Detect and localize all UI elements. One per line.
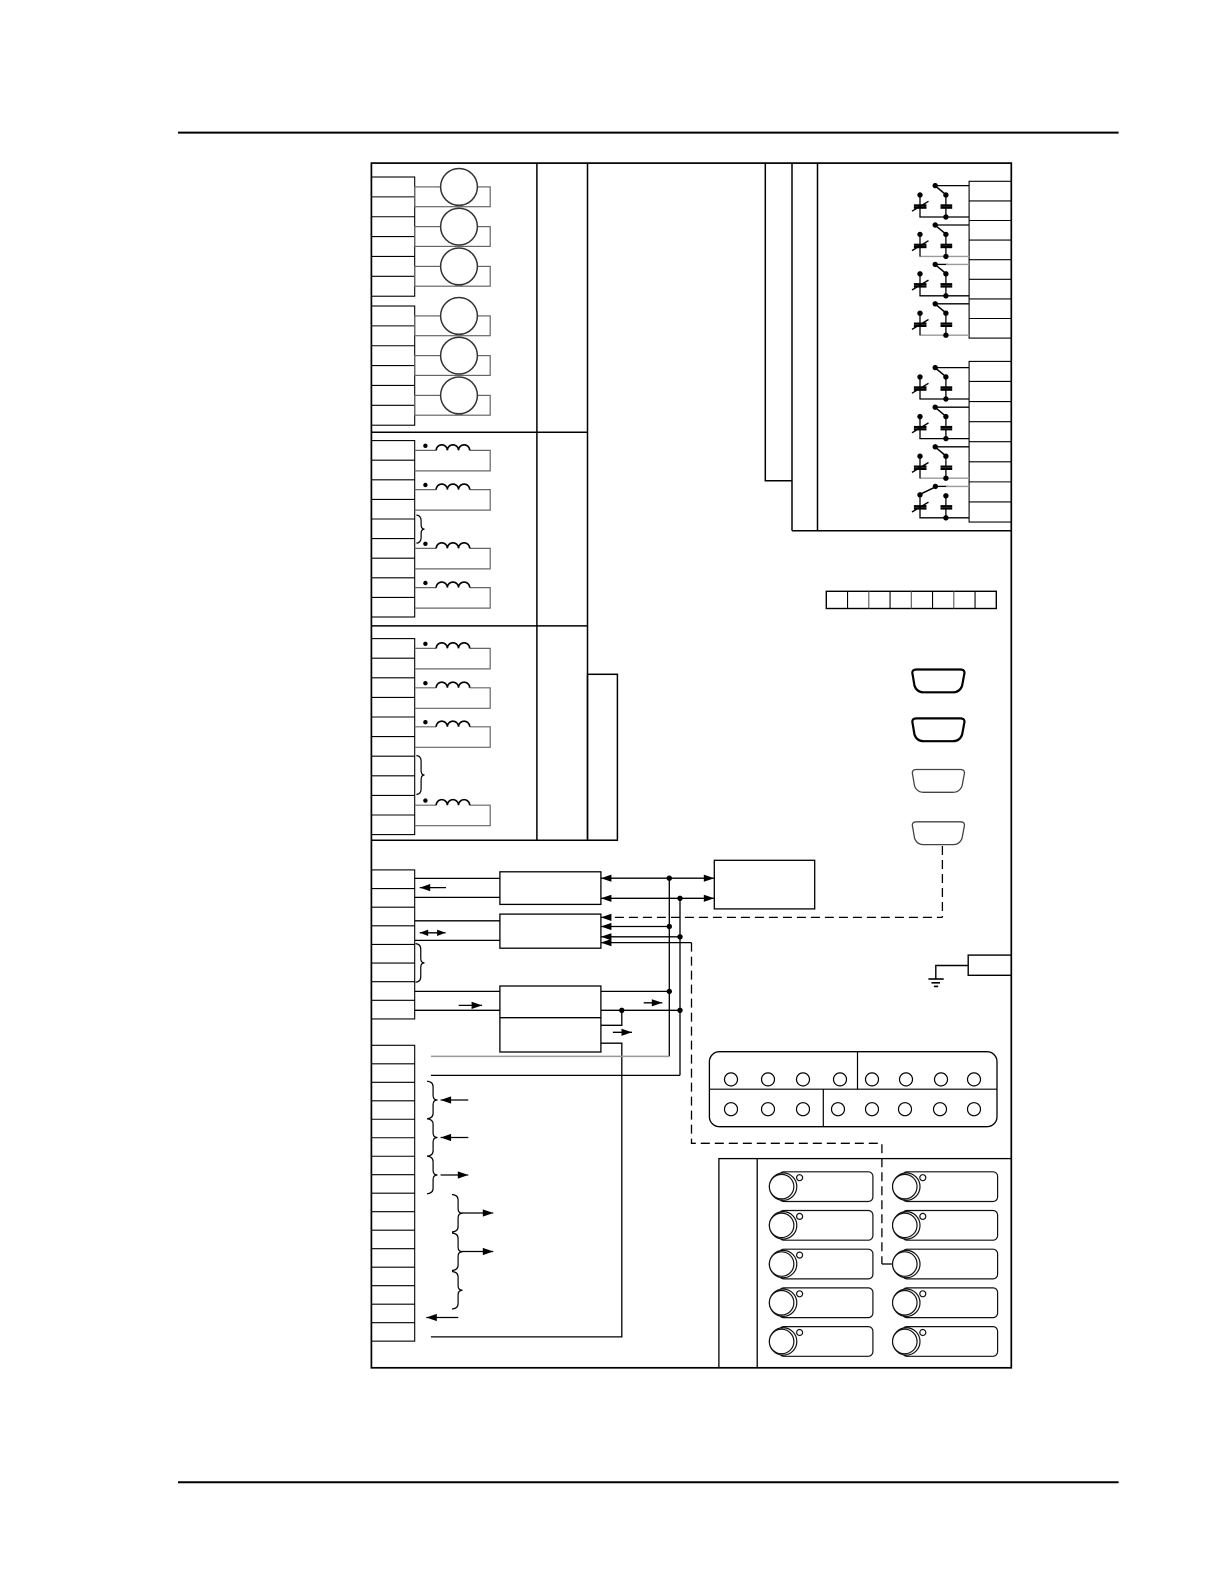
direction arrow d (from terminals) xyxy=(461,1212,493,1214)
current transformer CT6 xyxy=(415,377,491,415)
screw terminal 7 xyxy=(935,1073,948,1086)
screw terminal 3 xyxy=(797,1073,810,1086)
inductor L5 xyxy=(415,642,491,669)
relay K2 xyxy=(769,1211,873,1241)
wire to ground xyxy=(936,966,968,980)
wire U1-display link b xyxy=(601,897,714,899)
current transformer CT3 xyxy=(415,248,491,286)
relay compartment box xyxy=(719,1159,1011,1368)
terminal block TB5 (comm) xyxy=(371,870,414,1019)
inductor L3 xyxy=(415,542,491,569)
wire bus B to U2 xyxy=(601,936,680,938)
screw terminal 5 xyxy=(866,1073,879,1086)
direction arrow (to terminals) xyxy=(420,887,446,889)
screw terminal 2 xyxy=(762,1073,775,1086)
inductor L7 xyxy=(415,720,491,747)
bus wire to lower terminals xyxy=(431,1074,680,1076)
wire U3 to bus A xyxy=(601,990,669,992)
wire U3 input b xyxy=(415,1009,500,1011)
capacitor unit C4 (switch, trimmer, capacitor) xyxy=(912,301,969,338)
current transformer CT2 xyxy=(415,208,491,246)
terminal block TB2 (CT inputs 4-6) xyxy=(371,306,414,425)
terminal block TB1 (CT inputs 1-3) xyxy=(371,177,414,296)
node on link a xyxy=(667,876,672,881)
brace group c xyxy=(427,1156,438,1194)
section divider bottom of left stack xyxy=(371,839,617,841)
brace (terminal group) xyxy=(416,944,425,983)
inductor L4 xyxy=(415,581,491,608)
direction arrow (bidirectional) xyxy=(420,932,446,934)
screw terminal 6 xyxy=(900,1073,913,1086)
direction arrow (U3 out a) xyxy=(644,1002,663,1004)
terminal block TB3 xyxy=(371,441,414,617)
connector J1 (8-pole) xyxy=(826,591,996,608)
screw terminal 16 xyxy=(968,1103,981,1116)
brace (terminal group) xyxy=(416,515,424,543)
wire dashed-line to relay K8 xyxy=(882,1263,892,1265)
terminal block TB8 (capacitor group 2) xyxy=(969,361,1011,522)
capacitor bank box xyxy=(817,163,819,531)
capacitor unit C8 (mirrored switch, trimmer, capacitor) xyxy=(912,484,969,521)
current transformer CT1 xyxy=(415,169,491,207)
direction arrow (to module) xyxy=(459,1004,482,1006)
control line (dashed) from connector J5 xyxy=(941,846,943,917)
capacitor unit C2 (switch, trimmer, capacitor) xyxy=(912,222,969,259)
terminal block TB6 (signal terminals) xyxy=(371,1045,414,1341)
auxiliary module box xyxy=(588,674,618,840)
module box U1 xyxy=(500,872,601,905)
relay K1 xyxy=(769,1172,873,1202)
screw terminal 14 xyxy=(899,1103,912,1116)
connector J2 (D-sub) xyxy=(912,670,964,693)
terminal block TB4 xyxy=(371,639,414,835)
direction arrow c (from terminals) xyxy=(441,1174,469,1176)
brace group d xyxy=(452,1195,463,1233)
wire U2 input a xyxy=(415,920,500,922)
brace group e xyxy=(452,1233,463,1271)
screw terminal 12 xyxy=(832,1103,845,1116)
inductor L2 xyxy=(415,483,491,510)
direction arrow (U3 out b) xyxy=(613,1031,632,1033)
capacitor unit C1 (switch, trimmer, capacitor) xyxy=(912,183,969,220)
connector J3 (D-sub) xyxy=(912,718,964,741)
relay K7 xyxy=(893,1211,998,1241)
wire branch into U3 lower xyxy=(601,1010,622,1025)
inductor L8 xyxy=(415,798,491,825)
section divider reactor A/B xyxy=(371,625,587,627)
terminal block TB7 (capacitor group 1) xyxy=(969,181,1011,338)
connector J4 (D-sub) xyxy=(912,770,964,793)
wire U1-display link a xyxy=(601,877,714,879)
screw terminal 11 xyxy=(797,1103,810,1116)
page bottom rule xyxy=(178,1481,1119,1483)
capacitor unit C5 (switch, trimmer, capacitor) xyxy=(912,365,969,402)
screw terminal 8 xyxy=(968,1073,981,1086)
screw terminal 9 xyxy=(725,1103,738,1116)
direction arrow a (to terminals) xyxy=(441,1099,469,1101)
inductor L1 xyxy=(415,444,491,471)
relay K5 xyxy=(769,1327,873,1357)
wire U2 input b xyxy=(415,939,500,941)
inner column divider (left modules) xyxy=(536,163,538,840)
capacitor unit C3 (switch, trimmer, capacitor) xyxy=(912,262,969,299)
terminal strip TB9 (screw terminals) xyxy=(709,1052,997,1127)
bus wire (gray) to lower terminals xyxy=(431,1055,669,1057)
relay K10 xyxy=(893,1327,998,1357)
panel outer frame xyxy=(371,163,1011,1368)
inductor L6 xyxy=(415,681,491,708)
ground terminal box xyxy=(968,955,1011,975)
direction arrow e (from terminals) xyxy=(461,1251,493,1253)
screw terminal 15 xyxy=(934,1103,947,1116)
inner column divider (module bus) xyxy=(587,163,589,840)
current transformer CT4 xyxy=(415,298,491,336)
wire U3 to bus B xyxy=(601,1009,680,1011)
relay K8 xyxy=(893,1249,998,1279)
module box U2 xyxy=(500,914,601,948)
relay K3 xyxy=(769,1249,873,1279)
display unit box xyxy=(714,860,814,909)
screw terminal 13 xyxy=(866,1103,879,1116)
capacitor unit C6 (switch, trimmer, capacitor) xyxy=(912,405,969,442)
connector J5 (D-sub) xyxy=(912,822,964,845)
brace group b xyxy=(427,1119,438,1156)
brace (terminal group) xyxy=(416,756,424,795)
ground xyxy=(928,979,943,986)
control line (dashed) display to U2 xyxy=(601,916,943,918)
bus strip B xyxy=(791,163,793,531)
relay K4 xyxy=(769,1288,873,1318)
brace group a xyxy=(427,1081,438,1119)
vertical bus A xyxy=(668,878,670,1056)
bus strip A xyxy=(765,163,792,481)
vertical bus B xyxy=(679,898,681,1075)
node on link b xyxy=(677,896,682,901)
screw terminal 1 xyxy=(725,1073,738,1086)
screw terminal 4 xyxy=(834,1073,847,1086)
control line (dashed) U2 to relay group xyxy=(601,942,692,944)
section divider CT/reactor xyxy=(371,431,587,433)
wire U1 input b xyxy=(415,896,500,898)
brace group f xyxy=(452,1272,463,1310)
direction arrow b (to terminals) xyxy=(441,1137,469,1139)
wire U3 lower output to bottom terminals xyxy=(431,1043,622,1337)
screw terminal 10 xyxy=(762,1103,775,1116)
module box U3 (power supply, two stage) xyxy=(500,986,601,1052)
page top rule xyxy=(178,132,1119,134)
wire bus A to U2 xyxy=(601,926,669,928)
capacitor unit C7 (switch, trimmer, capacitor) xyxy=(912,444,969,481)
wire U3 input a xyxy=(415,990,500,992)
relay K9 xyxy=(893,1288,998,1318)
relay K6 xyxy=(893,1172,998,1202)
current transformer CT5 xyxy=(415,337,491,375)
direction arrow (output to terminals) xyxy=(426,1317,458,1319)
wire U1 input a xyxy=(415,877,500,879)
